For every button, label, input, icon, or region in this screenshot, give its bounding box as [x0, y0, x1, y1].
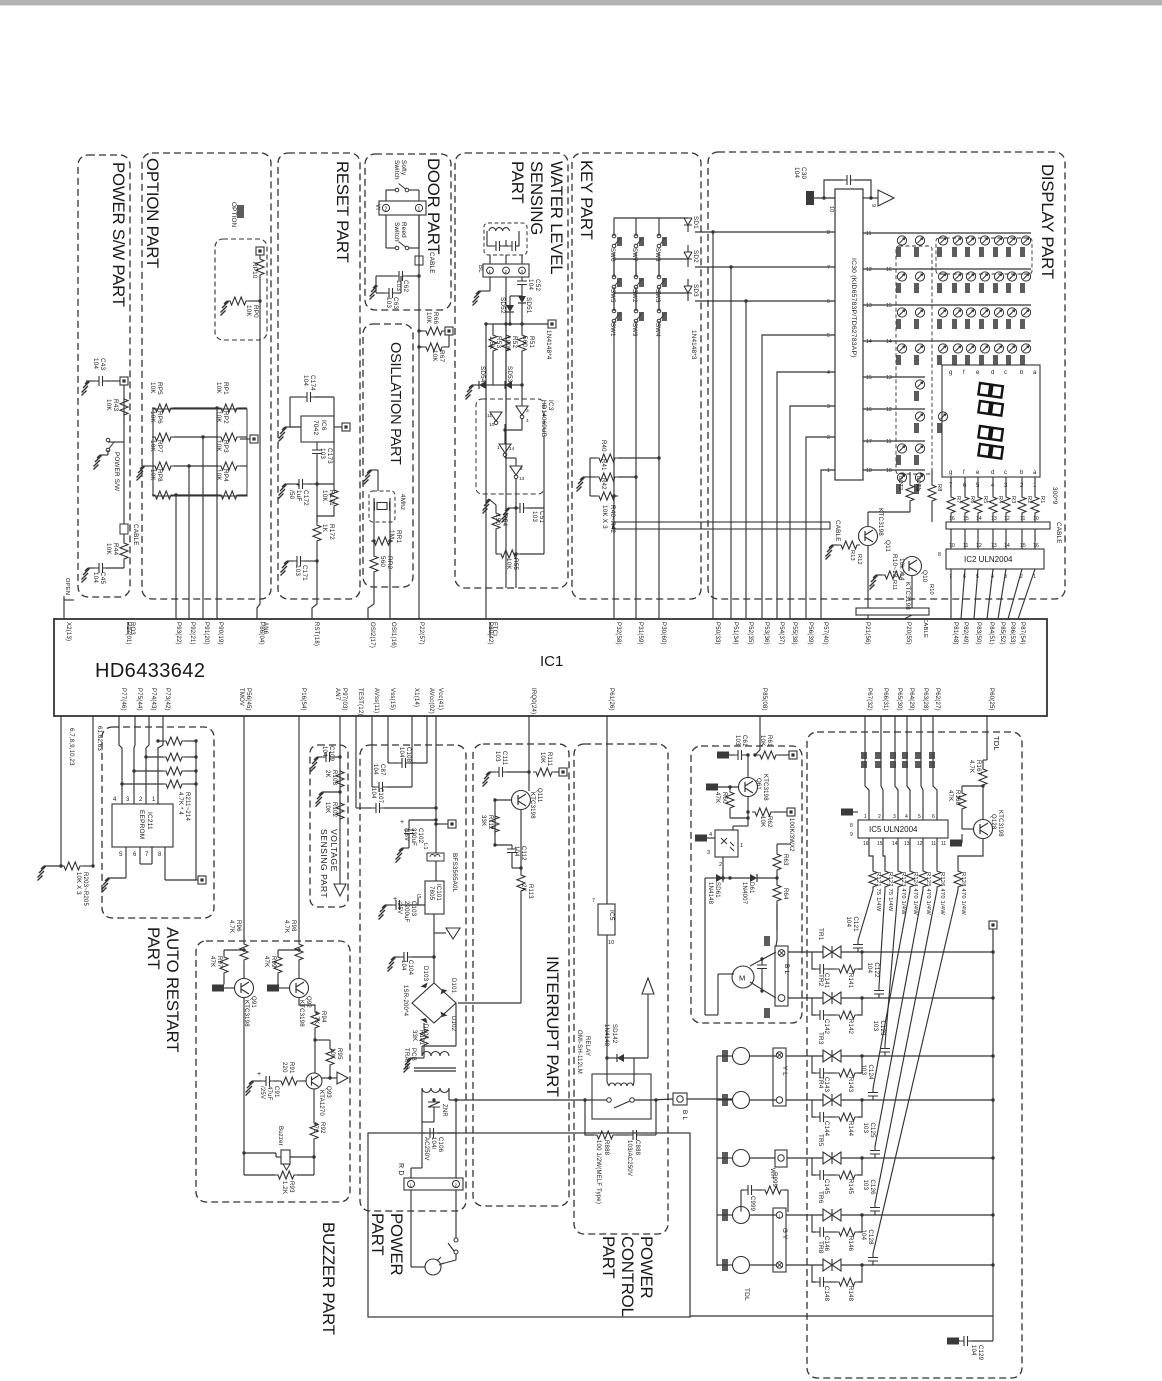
svg-text:C43: C43: [99, 358, 106, 370]
hatch ground Q128: [950, 840, 962, 847]
wire C174 left down to IC6: [289, 397, 291, 427]
svg-text:14: 14: [866, 339, 872, 345]
svg-text:X2(13): X2(13): [65, 622, 71, 641]
ground hatch C30: [806, 191, 814, 205]
resistor R999: [762, 1186, 784, 1194]
svg-text:KTC3198: KTC3198: [762, 774, 768, 801]
korean signal labels: [861, 752, 867, 759]
display arrow triangle: [878, 190, 894, 206]
svg-text:OMI-SH-112LM: OMI-SH-112LM: [576, 1030, 582, 1074]
svg-text:RESET PART: RESET PART: [333, 161, 352, 263]
svg-text:C108: C108: [405, 747, 411, 763]
svg-text:4.7K: 4.7K: [968, 760, 974, 773]
svg-text:PART: PART: [599, 1236, 618, 1278]
transistor Q92 KTC3198: [290, 979, 309, 998]
resistor R95 10K: [326, 1046, 334, 1068]
resistor R40: [596, 454, 618, 462]
svg-text:R9: R9: [914, 484, 920, 492]
svg-text:R123 470 1/4W: R123 470 1/4W: [900, 872, 906, 915]
svg-text:R97: R97: [216, 956, 222, 968]
svg-text:P87(54): P87(54): [1019, 622, 1025, 645]
svg-text:1M: 1M: [388, 530, 395, 539]
svg-text:CABLE: CABLE: [428, 252, 435, 274]
resistor R52 100K: [502, 332, 510, 354]
svg-text:RELAY: RELAY: [584, 1036, 590, 1056]
motor M: [732, 966, 754, 988]
svg-text:KTC3198: KTC3198: [997, 810, 1003, 837]
svg-text:IC101: IC101: [435, 884, 441, 901]
switch SW6: [612, 234, 620, 248]
wire C999 node: [740, 1190, 742, 1212]
capacitor C121 104: [853, 941, 863, 953]
svg-text:C142: C142: [823, 1019, 829, 1035]
svg-text:P56(39): P56(39): [807, 622, 813, 645]
svg-text:R52: R52: [511, 336, 518, 348]
svg-text:CABLE: CABLE: [834, 520, 841, 542]
hatch ground C129: [947, 1338, 959, 1345]
resistor R64: [773, 882, 781, 904]
svg-text:11: 11: [1020, 516, 1025, 522]
bridge diode D104: [419, 1013, 428, 1024]
svg-text:C61: C61: [741, 735, 747, 747]
svg-text:R7: R7: [955, 496, 961, 504]
node R171: [316, 458, 318, 485]
svg-text:C63: C63: [392, 297, 399, 309]
svg-text:13: 13: [904, 841, 910, 847]
wire P97 down: [339, 716, 341, 884]
wires band to EEPROM: [119, 716, 122, 804]
IC30 KID65783P body: [835, 189, 863, 480]
POWER CONTROL PART box: [574, 744, 668, 1234]
ground at switch: [94, 455, 102, 470]
svg-text:1: 1: [827, 468, 830, 474]
wires supply pins down: [355, 716, 357, 808]
svg-text:Q92: Q92: [305, 996, 311, 1008]
svg-text:WATER LEVEL: WATER LEVEL: [547, 161, 566, 274]
svg-text:104: 104: [398, 747, 404, 758]
svg-text:Softy: Softy: [400, 160, 407, 176]
connector square power: [448, 820, 456, 828]
svg-text:P60(25): P60(25): [988, 688, 994, 711]
resistor R94 4.7K: [311, 1009, 319, 1031]
svg-text:10K: 10K: [759, 816, 765, 827]
resistor R7: [947, 494, 955, 516]
svg-text:11: 11: [963, 543, 968, 549]
wire row TR3: [841, 1055, 993, 1057]
svg-text:OSILLATION PART: OSILLATION PART: [387, 342, 403, 465]
wire C174 right rail: [333, 397, 335, 484]
svg-text:104/: 104/: [430, 1137, 436, 1150]
svg-text:104: 104: [513, 846, 519, 857]
resistor R66 10K: [423, 327, 445, 335]
svg-text:R94: R94: [320, 1011, 326, 1023]
led indicator: [966, 308, 975, 317]
svg-text:R1: R1: [1039, 496, 1045, 504]
svg-text:5: 5: [827, 333, 830, 339]
svg-text:104: 104: [302, 375, 309, 386]
connector square C43 node: [120, 377, 128, 385]
diode SD61 1N4148: [716, 874, 723, 882]
svg-text:R102: R102: [331, 802, 337, 818]
transformer core: [414, 1067, 456, 1069]
resistor R102 10K: [336, 800, 344, 822]
resistor R54 150: [492, 510, 500, 532]
capacitor C63 103: [385, 288, 397, 298]
wire Q61 to IC61: [733, 825, 748, 827]
resistor R53 1.5K: [489, 332, 497, 354]
capacitor C109 104: [322, 752, 334, 762]
svg-text:g: g: [949, 470, 952, 476]
wire Q92 collector to R94: [299, 998, 315, 1010]
svg-text:C104: C104: [407, 960, 413, 976]
node C112: [493, 843, 496, 846]
svg-text:D102: D102: [450, 1016, 456, 1032]
EEPROM ground: [102, 878, 110, 893]
svg-text:SD61: SD61: [714, 882, 720, 898]
hatch ground IC5 pin8: [841, 809, 853, 816]
resistor R212 4.7K: [163, 753, 185, 761]
svg-text:P66(31): P66(31): [882, 688, 888, 711]
wire door down to P22: [418, 215, 420, 619]
power plug: [425, 1259, 441, 1275]
led indicator: [897, 236, 906, 245]
svg-text:P55(38): P55(38): [791, 622, 797, 645]
capacitor C145: [816, 1170, 828, 1180]
G Y O strip: [773, 1208, 786, 1272]
svg-text:RR1: RR1: [395, 530, 402, 543]
svg-text:10K: 10K: [215, 411, 222, 423]
svg-text:10K: 10K: [215, 469, 222, 481]
wire left column down: [60, 716, 62, 866]
diode SD51: [518, 296, 526, 303]
scanner artifact top bar: [0, 0, 1162, 6]
svg-text:IC2 ULN2004: IC2 ULN2004: [964, 555, 1013, 564]
svg-text:R11: R11: [891, 580, 897, 590]
svg-text:11: 11: [941, 841, 946, 847]
resistor R91 220: [278, 1077, 300, 1085]
resistor RP1 10K: [218, 404, 240, 412]
led indicator: [980, 236, 989, 245]
svg-text:PART: PART: [144, 927, 163, 969]
svg-text:R112: R112: [487, 815, 493, 830]
wire row TR6: [841, 1214, 993, 1216]
wire Q128 emitter to R128: [958, 839, 983, 868]
resistor R171 10K: [330, 487, 338, 509]
svg-text:TR1: TR1: [817, 928, 824, 941]
bridge diode D103: [419, 983, 428, 994]
resistor R63: [773, 851, 781, 873]
wire R64 to strip top: [776, 904, 778, 940]
svg-text:C143: C143: [823, 1077, 829, 1093]
svg-text:104: 104: [860, 1230, 866, 1241]
led indicator: [994, 236, 1003, 245]
svg-text:R5: R5: [982, 496, 988, 504]
resistor R42: [596, 492, 618, 500]
svg-text:3: 3: [526, 408, 529, 414]
resistor R43 10K: [120, 396, 128, 418]
wires segs down: [950, 477, 952, 494]
power switch: [106, 438, 114, 452]
resistor R213 4.7K: [163, 767, 185, 775]
svg-text:P63(28): P63(28): [922, 688, 928, 711]
connector square RP10: [256, 247, 264, 255]
resistor R172 1K: [313, 522, 321, 544]
svg-text:2K: 2K: [520, 884, 526, 892]
svg-text:Q93: Q93: [325, 1086, 331, 1098]
resistor R123 470 1/4W: [894, 868, 902, 890]
svg-text:15: 15: [886, 303, 892, 309]
wire R167 to Q128: [982, 788, 984, 820]
resistor R168 47K: [958, 790, 966, 812]
led indicator: [1021, 344, 1030, 353]
svg-text:12: 12: [866, 267, 872, 273]
svg-text:G Y: G Y: [781, 1228, 788, 1240]
svg-text:R98: R98: [290, 920, 296, 932]
arrow up power control: [642, 978, 654, 994]
transistor Q111 KTC3198: [512, 791, 531, 810]
svg-text:Buzzer: Buzzer: [277, 1126, 283, 1146]
svg-text:TEST(12): TEST(12): [357, 688, 363, 716]
svg-text:4.7K: 4.7K: [228, 920, 234, 933]
ground C111: [483, 772, 491, 787]
svg-text:POWER: POWER: [637, 1236, 656, 1298]
led indicator: [980, 272, 989, 281]
svg-text:103: 103: [531, 511, 538, 522]
svg-text:OPTION PART: OPTION PART: [143, 158, 162, 268]
svg-text:C145: C145: [823, 1179, 829, 1195]
wire IRQ0 down: [528, 716, 530, 772]
wire Q93 emitter down to R92: [313, 1089, 315, 1120]
wire gate diagonal: [885, 890, 898, 1045]
resistor R44 10K: [120, 540, 128, 562]
svg-text:RP1: RP1: [222, 382, 229, 395]
svg-text:104: 104: [370, 788, 376, 799]
transformer wires: [421, 1046, 423, 1056]
switch SW2: [634, 275, 642, 289]
svg-text:SD51: SD51: [525, 297, 532, 314]
svg-text:33K: 33K: [411, 1030, 417, 1041]
diode SD2: [684, 252, 692, 259]
capacitor C62 103: [395, 271, 407, 281]
triac TR3: [823, 1050, 841, 1062]
svg-text:18: 18: [866, 468, 872, 474]
seven segment digit 3: [978, 426, 1002, 441]
svg-text:Q10: Q10: [921, 570, 928, 583]
svg-text:P31(59): P31(59): [637, 622, 643, 645]
svg-text:12: 12: [886, 407, 892, 413]
svg-text:2200uF: 2200uF: [403, 901, 409, 923]
led indicator: [938, 308, 947, 317]
capacitor C43 104: [95, 376, 107, 386]
svg-text:4: 4: [905, 814, 908, 820]
capacitor C141: [816, 964, 828, 974]
hatch ground Q91 base: [212, 985, 224, 992]
transistor Q11 KTC3198: [859, 527, 878, 546]
led indicator: [994, 344, 1003, 353]
svg-text:103: 103: [860, 1065, 866, 1076]
svg-text:INTERRUPT PART: INTERRUPT PART: [543, 956, 562, 1097]
IC5 body: [598, 904, 615, 935]
svg-text:R101: R101: [418, 1030, 424, 1046]
wire Q91 collector down: [243, 998, 245, 1154]
wire key rows: [614, 217, 688, 219]
wire gate diagonal: [875, 890, 923, 1147]
right rail: [992, 929, 994, 1316]
inductor L1: [427, 853, 444, 861]
svg-text:104: 104: [92, 572, 99, 583]
diode SD53: [505, 381, 512, 389]
transistor Q91 KTC3198: [235, 979, 254, 998]
svg-text:6,7,8,9,10,23: 6,7,8,9,10,23: [68, 728, 74, 766]
wire port pin down: [895, 716, 898, 820]
wire row TR1: [841, 951, 993, 953]
wire rail to motor: [705, 1014, 718, 1016]
wire vcc node: [409, 819, 436, 821]
wire RP10 node down to AN6 pin: [259, 278, 261, 301]
resistor R203~R205 10K x 3: [61, 862, 83, 870]
capacitor C111 103: [495, 767, 507, 777]
led indicator: [938, 344, 947, 353]
svg-text:2: 2: [1020, 574, 1023, 580]
svg-text:10K: 10K: [505, 558, 512, 570]
svg-text:P20(55): P20(55): [905, 622, 911, 645]
svg-text:R172: R172: [328, 524, 335, 540]
wire L1 to IC101: [435, 820, 437, 853]
reed switch: [395, 242, 409, 250]
svg-text:R121 75 1/4W: R121 75 1/4W: [875, 872, 881, 912]
svg-text:C30: C30: [800, 167, 807, 179]
array left rail: [152, 409, 154, 495]
svg-text:1N4007: 1N4007: [741, 882, 747, 905]
svg-text:Vcc(41): Vcc(41): [437, 688, 443, 710]
ground at C43: [82, 381, 90, 396]
bridge rectifier 1SR-200*4: [412, 983, 456, 1023]
motor BL strip: [775, 946, 788, 1006]
svg-text:RP4: RP4: [222, 469, 229, 482]
svg-text:P62(27): P62(27): [934, 688, 940, 711]
svg-text:R113: R113: [527, 884, 533, 899]
svg-text:R122 75 1/4W: R122 75 1/4W: [887, 872, 893, 912]
svg-text:7: 7: [592, 898, 595, 904]
svg-text:C126: C126: [869, 1180, 875, 1196]
svg-text:4.7K * 4: 4.7K * 4: [177, 792, 183, 815]
svg-text:AVss(11): AVss(11): [373, 688, 379, 713]
svg-text:5: 5: [976, 574, 979, 580]
svg-text:KTA1270: KTA1270: [318, 1090, 324, 1116]
svg-text:C128: C128: [867, 1230, 873, 1246]
led indicator: [897, 272, 906, 281]
wire R96 to Q91: [243, 963, 245, 979]
svg-text:R62: R62: [766, 816, 772, 828]
svg-text:15: 15: [877, 841, 883, 847]
led indicator: [915, 272, 924, 281]
svg-text:C144: C144: [823, 1121, 829, 1137]
svg-text:47K: 47K: [714, 792, 720, 803]
seven segment digit 4: [978, 444, 1002, 459]
triac row left stubs: [788, 951, 823, 953]
svg-text:12: 12: [1004, 516, 1010, 522]
svg-text:R203~R205: R203~R205: [82, 872, 88, 906]
wire R98 to Q92: [298, 963, 300, 979]
VOLTAGE SENSING PART box: [310, 745, 348, 907]
resistor R167 4.7K: [979, 766, 987, 788]
capacitor C123 103: [880, 1045, 890, 1057]
capacitor C128 104: [868, 1254, 878, 1266]
capacitor C45 104: [95, 563, 107, 573]
triac TR4: [823, 1094, 841, 1106]
svg-text:TDL: TDL: [992, 736, 1001, 751]
svg-text:P16(54): P16(54): [300, 688, 306, 711]
wire P16 down: [298, 716, 300, 941]
svg-text:TR2: TR2: [817, 974, 824, 987]
resistor R128 470 1/4W: [954, 868, 962, 890]
svg-text:D101: D101: [450, 978, 456, 994]
svg-text:FTCI: FTCI: [491, 622, 497, 636]
ground BL pin1: [473, 291, 481, 306]
wires Q111 base collector: [528, 772, 530, 791]
svg-text:R44: R44: [112, 543, 119, 555]
svg-text:104: 104: [793, 167, 800, 178]
svg-text:C102: C102: [417, 828, 423, 844]
svg-text:R61: R61: [766, 735, 772, 747]
buzzer piezo: [281, 1150, 290, 1164]
svg-text:CABLE: CABLE: [132, 524, 139, 546]
wire R172 to RST: [312, 544, 317, 619]
wire port pin down: [907, 716, 910, 820]
led indicator: [915, 380, 924, 389]
resistor R6: [961, 494, 969, 516]
diode SD3: [684, 286, 692, 293]
WATER LEVEL SENSING PART box: [455, 153, 568, 588]
svg-text:TR8: TR8: [817, 1241, 824, 1254]
wires inverters: [521, 385, 523, 406]
B L connector: [673, 1093, 687, 1105]
svg-text:1N4148: 1N4148: [707, 882, 713, 905]
transistor Q128 KTC3198: [974, 820, 993, 839]
svg-text:Q61: Q61: [755, 778, 761, 790]
svg-text:R93: R93: [288, 1181, 294, 1193]
matrix dashed box left: [896, 246, 932, 474]
svg-text:1: 1: [1033, 574, 1036, 580]
power switch contact: [454, 1238, 458, 1242]
sensing open arrow: [334, 884, 346, 896]
svg-text:R146: R146: [847, 1236, 853, 1252]
svg-text:C173: C173: [326, 448, 333, 464]
led indicator: [980, 308, 989, 317]
triac TR5: [823, 1152, 841, 1164]
led indicator: [897, 444, 906, 453]
svg-text:9: 9: [870, 204, 876, 207]
svg-text:R91: R91: [288, 1062, 294, 1074]
resistor R51 560: [518, 332, 526, 354]
svg-text:R99: R99: [270, 956, 276, 968]
wire BL pin2 down: [505, 277, 507, 588]
triac TR6: [823, 1209, 841, 1221]
wire R64 down: [776, 904, 778, 930]
DISPLAY PART box: [708, 152, 1065, 599]
led indicator: [897, 344, 906, 353]
wire array rail to square: [195, 741, 197, 880]
svg-text:P54(37): P54(37): [778, 622, 784, 645]
led indicator: [915, 473, 924, 482]
svg-text:10K: 10K: [759, 735, 765, 746]
svg-text:g: g: [949, 370, 952, 376]
wires door switches: [385, 190, 387, 201]
resistor R4: [989, 494, 997, 516]
wires sensor to BL: [489, 255, 491, 264]
svg-text:OSI1(16): OSI1(16): [390, 622, 396, 648]
wire row TR5: [841, 1157, 993, 1159]
